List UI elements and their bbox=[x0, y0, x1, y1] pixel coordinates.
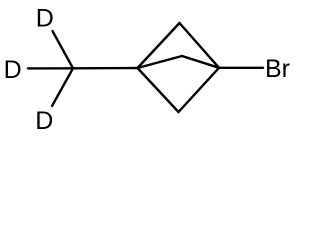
wire bond C2 to bottom cage vertex C4 bbox=[138, 68, 179, 112]
wire bond C1 to left D bbox=[28, 67, 73, 69]
wire bond C1 to top D bbox=[53, 31, 74, 68]
wire bridge bond C5 to C6 bbox=[182, 56, 219, 68]
svg-text:D: D bbox=[36, 5, 54, 33]
svg-text:Br: Br bbox=[265, 55, 290, 83]
svg-text:D: D bbox=[4, 56, 22, 84]
svg-text:D: D bbox=[35, 107, 53, 135]
wire bond C4 to bridgehead C6 bbox=[179, 68, 220, 112]
wire bond C1 to bottom D bbox=[52, 68, 73, 106]
wire bond C1 to bridgehead C2 bbox=[73, 67, 138, 70]
wire bond C6 to Br bbox=[219, 67, 263, 69]
wire bond C2 to top cage vertex C3 bbox=[138, 23, 180, 68]
wire bridge bond C2 to C5 bbox=[138, 56, 183, 68]
wire bond C3 to bridgehead C6 bbox=[180, 23, 220, 68]
